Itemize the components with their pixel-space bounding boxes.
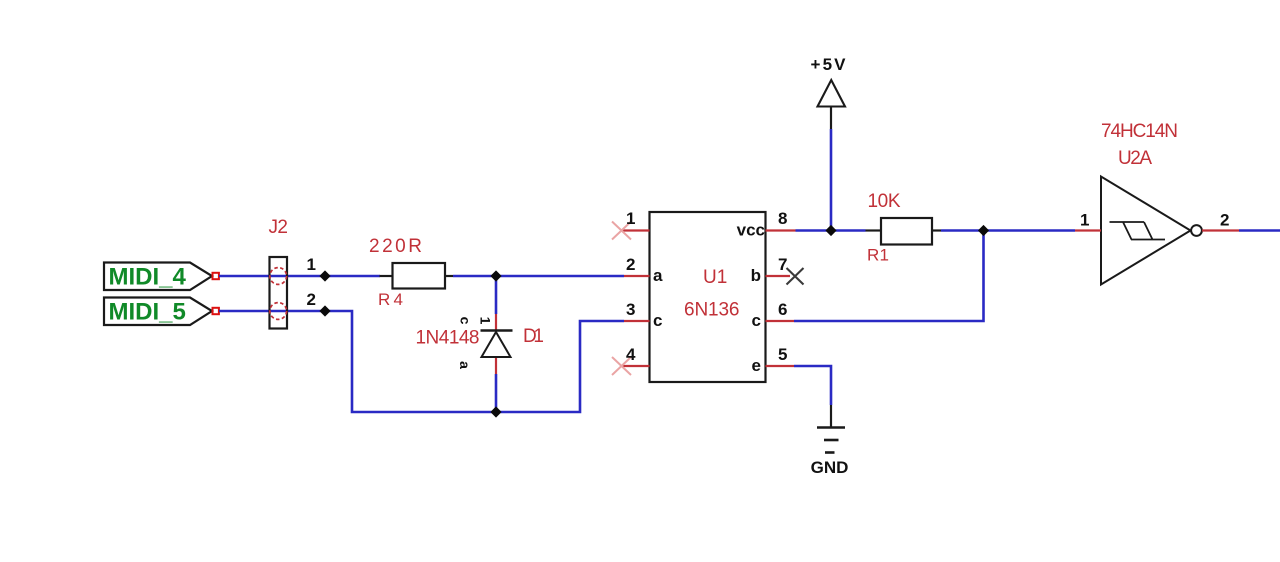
svg-text:b: b: [751, 266, 761, 285]
U1 pin2 stub: [624, 275, 650, 277]
resistor R1 lead left: [866, 229, 882, 231]
svg-text:7: 7: [778, 255, 787, 274]
svg-text:5: 5: [778, 345, 787, 364]
svg-text:U2A: U2A: [1118, 148, 1152, 169]
connector J2 pin circle 2: [270, 303, 287, 320]
svg-text:1: 1: [1080, 211, 1089, 230]
wire +5V drop: [830, 129, 833, 231]
IC U1 body: [650, 212, 766, 382]
diode D1 pin stub bottom: [495, 357, 497, 374]
inverter U2A triangle: [1101, 177, 1191, 285]
diode D1 pin stub top: [495, 314, 497, 330]
junction dot R1 output node: [978, 225, 989, 236]
ground bar 3: [825, 451, 835, 454]
U1 pin5 stub: [766, 365, 795, 367]
U1 pin7 stub: [766, 275, 791, 277]
svg-text:1N4148: 1N4148: [416, 328, 480, 349]
U1 pin3 stub: [624, 320, 650, 322]
svg-text:10K: 10K: [868, 191, 901, 212]
wire R4 to U1 pin2: [453, 275, 624, 278]
U1 pin7 no-connect X: [787, 268, 804, 285]
svg-text:J2: J2: [269, 217, 289, 238]
svg-text:+5V: +5V: [811, 55, 847, 74]
resistor R4 body: [393, 263, 446, 289]
wire U1 pin8 to R1: [796, 229, 866, 232]
diode D1 cathode bar: [481, 329, 513, 331]
junction dot J2 pin2: [319, 305, 330, 316]
svg-text:220R: 220R: [369, 236, 422, 257]
svg-text:8: 8: [778, 209, 787, 228]
ground stem: [830, 405, 832, 427]
U1 pin4 no-connect X: [612, 357, 631, 375]
svg-text:e: e: [752, 356, 761, 375]
ground bar 1: [817, 426, 845, 429]
wire MIDI_4 to R4: [219, 275, 380, 278]
svg-text:a: a: [457, 361, 473, 369]
resistor R4 lead right: [445, 275, 453, 277]
junction dot J2 pin1: [319, 270, 330, 281]
svg-text:4: 4: [626, 345, 636, 364]
U1 pin6 stub: [766, 320, 795, 322]
svg-text:c: c: [752, 311, 761, 330]
diode D1 triangle: [482, 332, 511, 357]
svg-text:6: 6: [778, 300, 787, 319]
+5V supply stem: [830, 107, 832, 130]
svg-text:2: 2: [307, 290, 316, 309]
+5V supply triangle: [818, 80, 846, 107]
connector J2 body: [270, 257, 288, 329]
wire MIDI_5 run: [219, 311, 624, 412]
svg-text:D1: D1: [523, 326, 544, 347]
inverter U2A output stub: [1202, 229, 1239, 231]
wire diode top: [495, 276, 498, 314]
resistor R1 body: [881, 218, 932, 245]
ground bar 2: [824, 439, 839, 442]
svg-text:vcc: vcc: [737, 221, 765, 240]
svg-text:1: 1: [307, 255, 316, 274]
wire R1 to U2A pin1: [941, 229, 1075, 232]
junction dot +5V node: [825, 225, 836, 236]
U1 pin8 stub: [766, 229, 796, 231]
inverter U2A input stub: [1075, 229, 1101, 231]
inverter U2A schmitt symbol: [1110, 222, 1166, 240]
wire U2A output: [1239, 229, 1280, 232]
svg-text:U1: U1: [703, 267, 727, 288]
svg-text:c: c: [653, 311, 662, 330]
svg-text:74HC14N: 74HC14N: [1101, 121, 1178, 142]
svg-text:2: 2: [626, 255, 635, 274]
svg-text:2: 2: [1220, 211, 1229, 230]
svg-text:6N136: 6N136: [684, 300, 740, 321]
svg-text:1: 1: [477, 317, 493, 325]
U1 pin1 no-connect X: [612, 222, 631, 240]
svg-text:3: 3: [626, 300, 635, 319]
net label MIDI_5 pin square: [213, 308, 219, 314]
net label MIDI_5 flag: [104, 298, 212, 326]
resistor R1 lead right: [932, 229, 941, 231]
wire feedback to U1 pin6: [794, 231, 984, 322]
net label MIDI_4 flag: [104, 263, 212, 291]
wire diode bottom: [495, 374, 498, 412]
svg-text:GND: GND: [811, 458, 849, 477]
wire U1 pin5 to GND: [794, 366, 831, 405]
U1 pin4 stub: [621, 365, 650, 367]
svg-text:R1: R1: [867, 246, 889, 265]
svg-text:MIDI_4: MIDI_4: [109, 264, 187, 291]
junction dot R4/D1 node: [490, 270, 501, 281]
svg-text:a: a: [653, 266, 663, 285]
svg-text:1: 1: [626, 209, 635, 228]
net label MIDI_4 pin square: [213, 273, 219, 279]
connector J2 pin circle 1: [270, 268, 287, 285]
resistor R4 lead left: [380, 275, 393, 277]
U1 pin1 stub: [621, 229, 650, 231]
junction dot D1 bottom node: [490, 406, 501, 417]
svg-text:c: c: [457, 317, 473, 325]
svg-text:MIDI_5: MIDI_5: [109, 299, 186, 326]
inverter U2A output bubble: [1191, 225, 1202, 236]
